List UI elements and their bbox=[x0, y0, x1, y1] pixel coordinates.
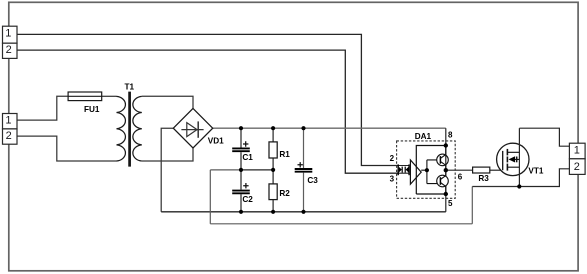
wire: middle connector pin2 to transformer primary bottom bbox=[17, 136, 117, 161]
junction node: mid rail at C1/C2 bbox=[239, 168, 243, 172]
wire: mid rail C1-C2 node to R1-R2 node bbox=[210, 169, 273, 171]
connector X3 pin number 1 bbox=[574, 144, 580, 156]
DA1 output transistor Q-top bbox=[437, 146, 449, 195]
svg-text:2: 2 bbox=[390, 154, 395, 163]
junction node: bottom rail at C3 bbox=[301, 210, 305, 214]
connector X2 boxes (middle left) bbox=[3, 114, 18, 145]
capacitor C3 plates bbox=[295, 169, 313, 172]
wire: fuse FU1 to transformer primary top bbox=[102, 95, 117, 97]
wire: R1 bottom to R2 top leg bbox=[272, 158, 274, 184]
svg-text:6: 6 bbox=[458, 173, 463, 182]
label C1 bbox=[242, 153, 253, 162]
C1 plus sign bbox=[243, 141, 248, 146]
label R2 bbox=[279, 189, 290, 198]
junction node: DA1 amplifier output bbox=[425, 168, 429, 172]
wire: VT1 drain loop to output connector pin1 bbox=[519, 128, 569, 146]
junction node: DA1 pin8 bbox=[444, 143, 448, 147]
wire: R2 bottom leg bbox=[272, 200, 274, 212]
wire: positive top rail from bridge to DA1 pin8 bbox=[213, 127, 446, 129]
svg-text:R3: R3 bbox=[478, 174, 489, 183]
wire: transformer secondary top to bridge AC1 bbox=[142, 96, 193, 108]
DA1 output transistor Q-bottom bbox=[437, 175, 449, 187]
junction node: bottom rail at R2 bbox=[271, 210, 275, 214]
DA1 anti-parallel LED pair bbox=[397, 164, 410, 175]
label VD1 bbox=[208, 137, 224, 146]
junction node: DA1 pin6 bbox=[444, 168, 448, 172]
transformer T1 core bbox=[128, 92, 131, 167]
C3 plus sign bbox=[298, 162, 303, 167]
optocoupler DA1 dashed box bbox=[397, 141, 456, 198]
DA1 base network wiring bbox=[421, 160, 440, 184]
svg-text:8: 8 bbox=[448, 130, 453, 139]
wire: transformer secondary bottom to bridge AC2 bbox=[142, 148, 193, 161]
svg-text:1: 1 bbox=[5, 28, 11, 40]
resistor R3 bbox=[473, 167, 490, 173]
svg-text:C2: C2 bbox=[242, 195, 253, 204]
connector X2 pin number 1 bbox=[5, 115, 11, 127]
wire: mid node loop down left of C2 bbox=[209, 170, 211, 224]
label FU1 bbox=[84, 105, 100, 114]
wire: bridge minus down to negative rail bbox=[161, 128, 173, 212]
resistor R1 bbox=[269, 142, 277, 158]
wire: rail B up to source level bbox=[471, 187, 473, 224]
VT1 substrate arrow bbox=[509, 156, 517, 162]
connector X3 boxes (right output) bbox=[569, 143, 585, 174]
capacitor C1 plates bbox=[232, 148, 250, 151]
svg-text:2: 2 bbox=[6, 44, 12, 56]
DA1 pin label 8 bbox=[448, 130, 453, 139]
wire: middle connector pin1 to fuse FU1 bbox=[17, 96, 68, 120]
junction node: bottom rail at C2 bbox=[239, 210, 243, 214]
wire: C3 top leg bbox=[303, 128, 305, 168]
resistor R2 bbox=[269, 184, 277, 200]
transformer T1 primary winding bbox=[117, 96, 126, 161]
svg-text:C3: C3 bbox=[307, 176, 318, 185]
wire: C1 bottom to C2 top leg bbox=[240, 152, 242, 189]
junction node: VT1 source bbox=[517, 184, 521, 188]
svg-text:5: 5 bbox=[448, 199, 453, 208]
MOSFET VT1 circle bbox=[497, 143, 529, 175]
DA1 pin label 5 bbox=[448, 199, 453, 208]
svg-text:VD1: VD1 bbox=[208, 137, 224, 146]
label T1 bbox=[125, 82, 135, 91]
wire: DA1 pin column pin8 to pin5 bbox=[445, 128, 447, 212]
wire: R1 top leg bbox=[272, 128, 274, 142]
fuse FU1 bbox=[68, 92, 102, 101]
svg-text:1: 1 bbox=[574, 144, 580, 156]
wire: VT1 source to output connector pin2 bbox=[519, 169, 569, 187]
connector X1 boxes (top left) bbox=[3, 26, 18, 58]
wire: top connector pin1 to optocoupler pin2 bbox=[17, 34, 399, 165]
svg-text:DA1: DA1 bbox=[415, 132, 432, 141]
VT1 gate bar bbox=[502, 151, 504, 170]
wire: return rail B bbox=[210, 223, 472, 225]
wire: top connector pin2 to optocoupler pin3 bbox=[17, 50, 399, 173]
wire: R3 to VT1 gate bbox=[490, 169, 503, 171]
wire: C3 bottom leg bbox=[303, 173, 305, 212]
svg-text:1: 1 bbox=[5, 115, 11, 127]
label VT1 bbox=[528, 167, 543, 176]
svg-text:R2: R2 bbox=[279, 189, 290, 198]
svg-text:T1: T1 bbox=[125, 82, 135, 91]
DA1 pin label 3 bbox=[390, 175, 395, 184]
junction node: top rail at C1 bbox=[239, 126, 243, 130]
VT1 channel segments and stubs bbox=[507, 149, 519, 171]
label R3 bbox=[478, 174, 489, 183]
wire: DA1 pin6 output to R3 bbox=[446, 169, 473, 171]
label DA1 bbox=[415, 132, 432, 141]
junction node: DA1 pin5 bbox=[444, 192, 448, 196]
bridge rectifier VD1 internal diode bbox=[181, 121, 203, 137]
bridge rectifier VD1 diamond bbox=[173, 108, 212, 148]
DA1 pin label 6 bbox=[458, 173, 463, 182]
svg-text:R1: R1 bbox=[279, 150, 290, 159]
wire: VT1 drain-source vertical bbox=[518, 128, 520, 186]
svg-text:C1: C1 bbox=[242, 153, 253, 162]
DA1 pin label 2 bbox=[390, 154, 395, 163]
connector X1 pin number 1 bbox=[5, 28, 11, 40]
wire: C1 top leg bbox=[240, 128, 242, 147]
wire: rail B to VT1 source node bbox=[472, 186, 519, 188]
C2 plus sign bbox=[243, 183, 248, 188]
wire: negative bottom rail to DA1 pin5 bbox=[161, 211, 446, 213]
DA1 internal supply rails bbox=[416, 146, 446, 195]
junction node: mid rail at R1/R2 bbox=[271, 168, 275, 172]
connector X3 pin number 2 bbox=[574, 161, 580, 173]
label C3 bbox=[307, 176, 318, 185]
wire: C2 bottom leg bbox=[240, 194, 242, 212]
label R1 bbox=[279, 150, 290, 159]
svg-text:VT1: VT1 bbox=[528, 167, 543, 176]
junction node: top rail at C3 bbox=[301, 126, 305, 130]
svg-text:FU1: FU1 bbox=[84, 105, 100, 114]
connector X1 pin number 2 bbox=[6, 44, 12, 56]
svg-text:3: 3 bbox=[390, 175, 395, 184]
transformer T1 secondary winding bbox=[133, 96, 142, 161]
label C2 bbox=[242, 195, 253, 204]
connector X2 pin number 2 bbox=[6, 130, 12, 142]
capacitor C2 plates bbox=[232, 191, 250, 194]
svg-text:2: 2 bbox=[6, 130, 12, 142]
DA1 photodetector amplifier triangle bbox=[410, 160, 421, 184]
svg-text:2: 2 bbox=[574, 161, 580, 173]
junction node: top rail at R1 bbox=[271, 126, 275, 130]
